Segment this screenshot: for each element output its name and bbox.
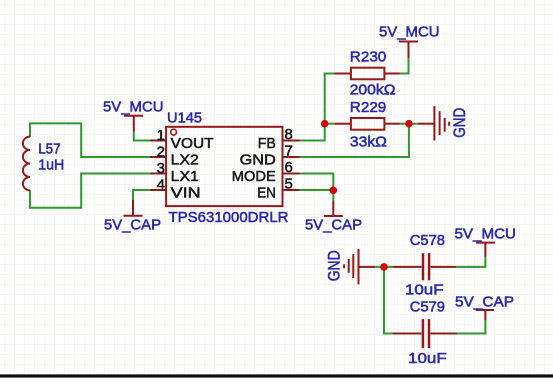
svg-text:LX1: LX1: [171, 168, 199, 185]
svg-text:1: 1: [157, 127, 165, 144]
svg-text:5V_CAP: 5V_CAP: [104, 216, 161, 233]
svg-text:GND: GND: [451, 108, 469, 138]
svg-text:GND: GND: [240, 152, 276, 169]
svg-text:5V_MCU: 5V_MCU: [455, 226, 517, 243]
svg-text:TPS631000DRLR: TPS631000DRLR: [169, 209, 289, 226]
svg-text:VIN: VIN: [171, 185, 201, 202]
svg-text:10uF: 10uF: [405, 281, 444, 298]
svg-text:5V_MCU: 5V_MCU: [379, 23, 440, 40]
svg-text:200kΩ: 200kΩ: [350, 81, 396, 98]
svg-text:U145: U145: [167, 109, 202, 126]
svg-text:GND: GND: [326, 250, 344, 281]
svg-text:5: 5: [285, 176, 293, 193]
svg-text:MODE: MODE: [232, 168, 276, 185]
svg-text:5V_CAP: 5V_CAP: [455, 293, 514, 310]
svg-text:1uH: 1uH: [38, 156, 64, 173]
svg-text:33kΩ: 33kΩ: [350, 134, 387, 151]
svg-text:8: 8: [285, 126, 293, 143]
svg-text:R229: R229: [350, 99, 387, 116]
svg-text:L57: L57: [38, 140, 61, 157]
svg-text:VOUT: VOUT: [171, 135, 214, 152]
svg-text:5V_MCU: 5V_MCU: [103, 98, 164, 115]
svg-text:R230: R230: [350, 49, 387, 66]
svg-text:7: 7: [285, 143, 293, 160]
svg-text:FB: FB: [258, 135, 276, 152]
svg-text:EN: EN: [257, 185, 276, 202]
svg-text:C579: C579: [410, 299, 445, 316]
svg-text:10uF: 10uF: [408, 350, 447, 367]
svg-text:3: 3: [157, 160, 165, 177]
svg-text:LX2: LX2: [171, 152, 199, 169]
svg-text:5V_CAP: 5V_CAP: [305, 216, 362, 233]
svg-text:C578: C578: [410, 232, 445, 249]
svg-text:6: 6: [285, 159, 293, 176]
svg-text:2: 2: [157, 144, 165, 161]
svg-text:4: 4: [157, 177, 165, 194]
